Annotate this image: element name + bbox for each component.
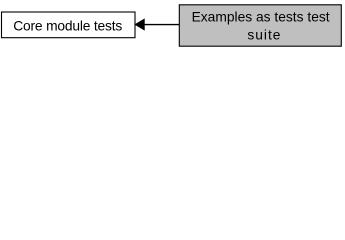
svg-text:Examples as tests test: Examples as tests test [192,10,330,25]
svg-text:suite: suite [247,28,281,43]
node: Core module tests [2,12,136,38]
background [0,0,345,51]
arrowhead [135,19,144,29]
svg-text:Core module tests: Core module tests [13,18,122,33]
node: Examples as tests test suite [179,5,341,46]
wire: dependency edge [144,24,179,26]
